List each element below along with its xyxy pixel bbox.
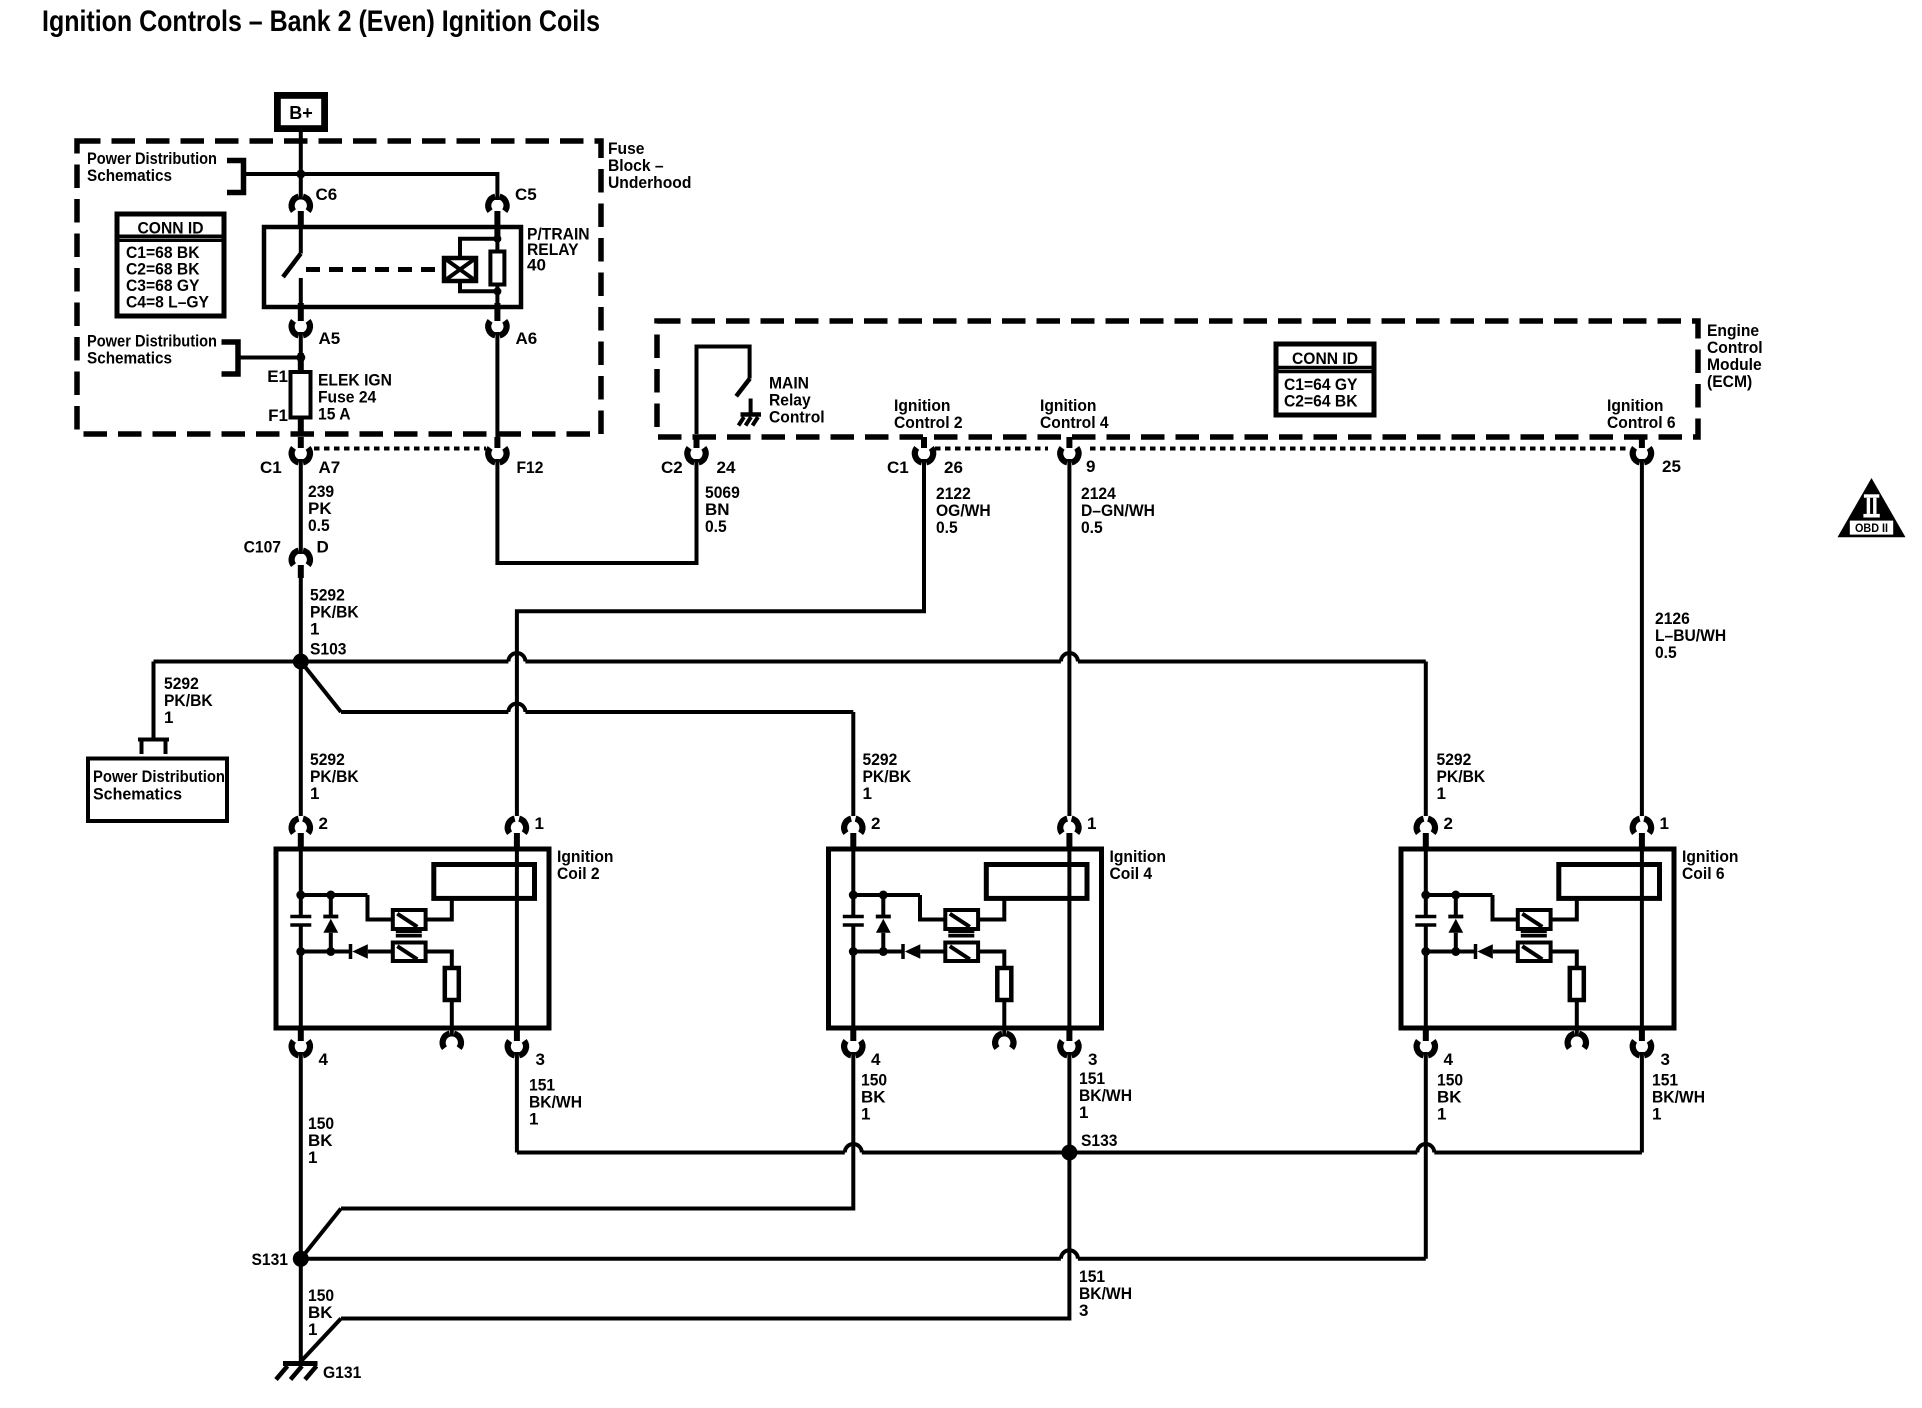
stub ECM pin 24 (694, 437, 700, 448)
ignition coil 4 internal bottom branch (853, 950, 901, 954)
ignition coil 6 box (1401, 849, 1674, 1028)
wire resistor to A6 (495, 291, 499, 303)
svg-text:40: 40 (527, 256, 546, 275)
svg-text:Schematics: Schematics (87, 166, 172, 185)
ignition coil 2 pin 3 connector (514, 1028, 520, 1041)
svg-text:0.5: 0.5 (705, 517, 727, 536)
svg-text:3: 3 (536, 1050, 545, 1069)
svg-text:25: 25 (1662, 457, 1681, 476)
branch S103 to bus 2 (301, 662, 341, 713)
svg-text:C4=8 L–GY: C4=8 L–GY (126, 293, 210, 312)
ignition coil 2 driver separator (396, 931, 422, 934)
ignition coil 4 internal resistor (997, 968, 1011, 1000)
wire ECM pin 26 to coil 2 pin 1 (517, 459, 924, 816)
svg-text:Ignition Controls – Bank 2 (Ev: Ignition Controls – Bank 2 (Even) Igniti… (42, 5, 600, 38)
stub to A7 (298, 437, 304, 448)
svg-text:Coil 6: Coil 6 (1682, 864, 1725, 883)
svg-text:3: 3 (1088, 1050, 1097, 1069)
ignition coil 4 driver stage 1 (945, 910, 978, 929)
wire ECM pin 9 to coil 4 pin 1 (1067, 459, 1071, 816)
ignition coil 6 pin 4 connector (1423, 1028, 1429, 1041)
svg-text:C5: C5 (515, 185, 537, 204)
engine control module dashed box (657, 321, 1698, 437)
svg-text:A6: A6 (516, 329, 538, 348)
bus 2 to coil 4 pin 2 (341, 710, 508, 714)
svg-text:2: 2 (1444, 814, 1453, 833)
ignition coil 2 feedback diode (349, 944, 353, 959)
ignition coil 4 internal top branch (853, 893, 920, 897)
connector ECM pin 24 (687, 448, 694, 463)
ignition coil 4 box (829, 849, 1102, 1028)
svg-text:S103: S103 (310, 640, 347, 659)
wire A6 to F12 (495, 332, 499, 437)
ignition coil 2 driver 2 output wire (426, 952, 452, 969)
svg-text:S133: S133 (1081, 1131, 1118, 1150)
fuse terminal F1 stub (298, 418, 304, 435)
ignition coil 4 primary winding (986, 865, 1087, 899)
connector ECM pin 9 (1060, 448, 1067, 463)
ignition coil 6 driver stage 1 (1518, 910, 1551, 929)
stub to A5 (298, 303, 304, 321)
ignition coil 4 internal junction C (849, 947, 858, 956)
ignition coil 6 internal resistor (1570, 968, 1584, 1000)
wire coil 4 pin 4 run (341, 1052, 853, 1209)
ignition coil 4 resistor to spark output (1002, 1000, 1006, 1028)
svg-text:1: 1 (529, 1110, 538, 1129)
ignition coil 4 pin 2 connector (844, 819, 851, 834)
svg-text:0.5: 0.5 (936, 518, 958, 537)
ignition coil 6 capacitor (1424, 895, 1428, 917)
wire S131 to G131 (299, 1259, 303, 1364)
svg-text:F1: F1 (268, 406, 288, 425)
svg-text:Power Distribution: Power Distribution (93, 767, 225, 786)
connector A7 (292, 448, 299, 463)
svg-text:1: 1 (164, 708, 173, 727)
MAIN relay control ground stem (749, 399, 753, 415)
svg-text:D: D (317, 538, 329, 557)
power distribution plug (138, 738, 169, 742)
ECM conn id table (1276, 344, 1374, 415)
wire coil 4 pin 3 to S133 (1067, 1052, 1071, 1153)
svg-text:OBD II: OBD II (1855, 521, 1888, 535)
svg-text:E1: E1 (267, 367, 288, 386)
ignition coil 2 spark output connector (450, 1028, 454, 1037)
ignition coil 4 capacitor (851, 895, 855, 917)
connector F12 (488, 448, 495, 463)
ignition coil 6 internal bottom branch (1426, 950, 1474, 954)
connector ECM pin 26 (915, 448, 922, 463)
bus S133 (517, 1151, 845, 1155)
connector C6 (292, 197, 299, 212)
ignition coil 4 driver 2 output wire (978, 952, 1004, 969)
relay coil top link (460, 239, 497, 258)
ignition coil 2 internal junction D (326, 947, 335, 956)
ignition coil 6 pin 3 connector (1639, 1028, 1645, 1041)
ignition coil 4 internal supply wire (851, 849, 855, 895)
ignition coil 4 pin 1 connector (1060, 819, 1067, 834)
ignition coil 2 ground wire internal (299, 952, 303, 1029)
ignition coil 6 driver separator (1521, 931, 1547, 934)
svg-text:C1: C1 (887, 458, 909, 477)
connector C107 (292, 551, 299, 566)
wire S103 to coil 2 pin 2 (299, 662, 303, 817)
splice S131 (293, 1251, 309, 1267)
wire coil 4 pin 2 drop (851, 712, 855, 816)
svg-text:3: 3 (1079, 1301, 1088, 1320)
ignition coil 2 internal bottom branch (301, 950, 349, 954)
relay switch lower contact (299, 278, 303, 307)
relay resistor (495, 239, 499, 252)
wire S103 to power distribution (152, 662, 156, 738)
svg-text:24: 24 (717, 458, 736, 477)
ignition coil 4 ground wire internal (851, 952, 855, 1029)
wire reference to B+ line (244, 172, 301, 176)
ignition coil 4 driver separator (948, 931, 974, 934)
ignition coil 4 branch to driver 1 (920, 895, 945, 920)
stub ECM pin 9 (1066, 437, 1072, 448)
svg-text:(ECM): (ECM) (1707, 372, 1752, 391)
connector A5 (292, 321, 299, 336)
svg-text:0.5: 0.5 (1655, 643, 1677, 662)
svg-text:C2: C2 (661, 458, 683, 477)
svg-text:Control 4: Control 4 (1040, 413, 1109, 432)
ignition coil 6 driver 1 output wire (1551, 898, 1577, 919)
battery B+ terminal box (274, 92, 328, 132)
svg-text:2: 2 (319, 814, 328, 833)
ignition coil 4 internal junction A (849, 891, 858, 900)
svg-text:4: 4 (1444, 1050, 1454, 1069)
svg-text:1: 1 (310, 620, 319, 639)
svg-text:C2=64 BK: C2=64 BK (1284, 392, 1358, 411)
svg-text:Schematics: Schematics (87, 349, 172, 368)
ignition coil 2 pin 4 connector (298, 1028, 304, 1041)
ignition coil 6 internal supply wire (1424, 849, 1428, 895)
svg-text:B+: B+ (289, 103, 313, 123)
svg-text:0.5: 0.5 (1081, 518, 1103, 537)
ignition coil 4 feedback diode (901, 944, 905, 959)
ignition coil 6 internal junction B (1451, 891, 1460, 900)
svg-text:1: 1 (308, 1320, 317, 1339)
svg-text:1: 1 (310, 784, 319, 803)
svg-text:C6: C6 (316, 185, 338, 204)
ignition coil 4 pin 3 connector (1066, 1028, 1072, 1041)
ignition coil 6 resistor to spark output (1575, 1000, 1579, 1028)
bus S103 to coil 6 pin 2 (154, 660, 509, 664)
svg-text:1: 1 (861, 1105, 870, 1124)
ignition coil 2 pin 1 connector (508, 819, 515, 834)
ignition coil 4 zener diode (881, 895, 885, 917)
splice S103 (293, 654, 309, 670)
wire coil 6 pin 3 to S133 bus (1640, 1052, 1644, 1153)
junction relay top (493, 235, 501, 243)
wire coil 2 pin 3 run (515, 1052, 519, 1153)
wire coil 6 pin 2 drop (1424, 662, 1428, 817)
bus S131 to coil 6 pin 4 (301, 1257, 1061, 1261)
power distribution schematics box (88, 759, 227, 822)
svg-text:4: 4 (871, 1050, 881, 1069)
svg-text:1: 1 (1437, 1105, 1446, 1124)
stub to A6 (494, 303, 500, 321)
connector C5 (488, 197, 495, 212)
svg-text:Schematics: Schematics (93, 785, 182, 804)
ignition coil 6 driver 2 output wire (1551, 952, 1577, 969)
ignition coil 2 capacitor (299, 895, 303, 917)
junction at fuse line (296, 353, 305, 362)
fuse ELEK IGN terminal E1 stub (298, 353, 304, 373)
svg-text:26: 26 (944, 458, 963, 477)
ground G131 (283, 1361, 318, 1366)
wire F12 to ECM pin 24 (497, 459, 696, 563)
wire coil 4 pin 4 diagonal to S131 (301, 1209, 341, 1259)
ignition coil 2 driver stage 1 (393, 910, 426, 929)
ignition coil 2 zener diode (329, 895, 333, 917)
svg-text:A7: A7 (319, 458, 341, 477)
ignition coil 2 driver 1 output wire (426, 898, 452, 919)
relay switch upper contact (299, 227, 303, 254)
ignition coil 4 internal junction B (879, 891, 888, 900)
relay actuator dashed link (306, 267, 443, 272)
stub C5 into relay box (494, 211, 500, 240)
relay switch blade (283, 254, 301, 278)
splice S133 (1061, 1145, 1077, 1161)
ignition coil 4 internal junction D (879, 947, 888, 956)
wire coil 6 pin 4 drop (1424, 1052, 1428, 1259)
stub below C107 (298, 565, 304, 578)
svg-text:CONN ID: CONN ID (138, 219, 204, 238)
ignition coil 2 internal top branch (301, 893, 368, 897)
svg-text:Control 6: Control 6 (1607, 413, 1676, 432)
ignition coil 6 internal junction D (1451, 947, 1460, 956)
stub C6 to relay box (298, 211, 304, 227)
svg-text:1: 1 (1087, 814, 1096, 833)
svg-text:1: 1 (863, 784, 872, 803)
fuse block conn id table (117, 214, 224, 316)
ignition coil 6 spark output connector (1575, 1028, 1579, 1037)
wire reference 2 to fuse line (238, 356, 301, 360)
ignition coil 6 feedback diode (1474, 944, 1478, 959)
wire S133 to ground run (341, 1153, 1069, 1319)
svg-text:Coil 2: Coil 2 (557, 864, 600, 883)
ECM connector C1 dotted interface (935, 447, 1048, 451)
ignition coil 4 pin 4 connector (850, 1028, 856, 1041)
connector A6 (488, 321, 495, 336)
svg-text:G131: G131 (323, 1363, 361, 1382)
ignition coil 6 pin 1 internal wire (1640, 849, 1644, 1028)
wire A7 to C107 (299, 459, 303, 554)
ignition coil 6 internal junction C (1421, 947, 1430, 956)
svg-text:C1: C1 (260, 458, 282, 477)
ignition coil 2 branch to driver 1 (368, 895, 393, 920)
ignition coil 6 internal junction A (1421, 891, 1430, 900)
svg-text:9: 9 (1086, 457, 1095, 476)
ignition coil 6 internal top branch (1426, 893, 1493, 897)
svg-text:Control: Control (769, 408, 825, 427)
ignition coil 2 pin 2 connector (292, 819, 299, 834)
stub to F12 (494, 437, 500, 448)
ignition coil 2 internal junction B (326, 891, 335, 900)
svg-text:1: 1 (1652, 1105, 1661, 1124)
relay coil bottom link (460, 281, 497, 291)
junction relay bottom (493, 287, 501, 295)
ignition coil 4 driver stage 2 (945, 943, 978, 962)
svg-text:C107: C107 (244, 538, 281, 557)
ignition coil 2 internal resistor (445, 968, 459, 1000)
wire C107 to S103 (299, 578, 303, 662)
OBD II symbol (1838, 478, 1906, 537)
ignition coil 4 driver 1 output wire (978, 898, 1004, 919)
svg-text:CONN ID: CONN ID (1292, 349, 1358, 368)
ignition coil 2 pin 1 internal wire (515, 849, 519, 1028)
ignition coil 4 spark output connector (1002, 1028, 1006, 1037)
ignition coil 2 internal supply wire (299, 849, 303, 895)
wire ECM pin 25 to coil 6 pin 1 (1640, 459, 1644, 816)
ignition coil 2 internal junction C (296, 947, 305, 956)
svg-text:15 A: 15 A (318, 405, 351, 424)
junction at B+ line (296, 170, 305, 179)
svg-text:3: 3 (1661, 1050, 1670, 1069)
svg-text:S131: S131 (252, 1250, 289, 1269)
stub ECM pin 26 (921, 437, 927, 448)
svg-text:F12: F12 (517, 458, 544, 477)
MAIN relay control chassis ground (741, 412, 762, 417)
svg-text:1: 1 (535, 814, 544, 833)
MAIN relay control wire (697, 347, 750, 435)
fuse ELEK IGN 24 body (291, 372, 311, 418)
fuse block connector C1 dotted interface (314, 447, 486, 451)
MAIN relay control switch blade (736, 379, 750, 397)
stub ECM pin 25 (1639, 437, 1645, 448)
wire B+ to C6 (299, 132, 303, 200)
ignition coil 2 box (276, 849, 549, 1028)
wire A5 to fuse (299, 332, 303, 358)
wire S133 return diagonal (301, 1319, 341, 1362)
relay coil box (444, 258, 476, 281)
P/TRAIN relay 40 box (264, 227, 521, 307)
svg-text:A5: A5 (319, 329, 341, 348)
svg-text:1: 1 (1660, 814, 1669, 833)
ignition coil 2 internal junction A (296, 891, 305, 900)
svg-text:Coil 4: Coil 4 (1110, 864, 1153, 883)
ignition coil 2 driver stage 2 (393, 943, 426, 962)
ignition coil 6 ground wire internal (1424, 952, 1428, 1029)
fuse block underhood dashed box (77, 141, 601, 434)
wire to C5 (301, 174, 498, 200)
ignition coil 6 driver stage 2 (1518, 943, 1551, 962)
ignition coil 6 pin 1 connector (1633, 819, 1640, 834)
ignition coil 2 resistor to spark output (450, 1000, 454, 1028)
ignition coil 6 branch to driver 1 (1493, 895, 1518, 920)
wire coil 2 pin 4 to S131 (299, 1052, 303, 1259)
svg-text:Control 2: Control 2 (894, 413, 963, 432)
ignition coil 6 pin 2 connector (1417, 819, 1424, 834)
svg-text:Underhood: Underhood (608, 173, 691, 192)
svg-text:0.5: 0.5 (308, 516, 330, 535)
svg-text:4: 4 (319, 1050, 329, 1069)
connector ECM pin 25 (1633, 448, 1640, 463)
svg-text:1: 1 (1437, 784, 1446, 803)
ignition coil 6 zener diode (1454, 895, 1458, 917)
ignition coil 6 primary winding (1559, 865, 1660, 899)
svg-text:1: 1 (308, 1148, 317, 1167)
svg-text:1: 1 (1079, 1103, 1088, 1122)
ignition coil 2 primary winding (434, 865, 535, 899)
ignition coil 4 pin 1 internal wire (1067, 849, 1071, 1028)
svg-text:2: 2 (871, 814, 880, 833)
